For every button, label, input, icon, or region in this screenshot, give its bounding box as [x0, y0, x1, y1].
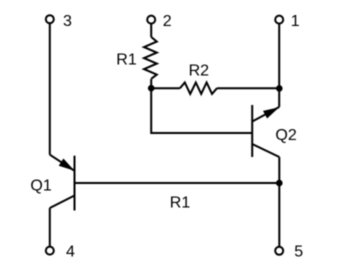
transistor Q2 emitter diagonal	[252, 107, 279, 122]
wire pin 3 down to Q1 emitter	[49, 24, 51, 155]
svg-text:2: 2	[163, 13, 172, 30]
transistor Q1 emitter diagonal	[50, 155, 75, 171]
junction node on pin 1 wire	[276, 85, 283, 92]
wire pin 2 down to resistor R1	[150, 24, 152, 37]
transistor Q2 base bar	[251, 105, 253, 157]
wire Q1 base to junction (long horizontal)	[75, 182, 280, 184]
svg-text:Q1: Q1	[30, 178, 51, 195]
transistor Q1 base bar	[74, 156, 76, 211]
terminal pin 1	[275, 16, 283, 24]
wire junction down then right to Q2 base	[151, 88, 252, 133]
terminal pin 5	[275, 247, 283, 255]
wire Q1 collector down to pin 4	[49, 208, 51, 246]
resistor R1 zigzag	[144, 37, 157, 79]
svg-text:R2: R2	[189, 63, 210, 80]
wire resistor R2 to right junction	[217, 87, 279, 89]
transistor Q2 collector diagonal	[252, 144, 279, 157]
resistor R2 zigzag	[180, 83, 217, 94]
svg-text:5: 5	[294, 243, 303, 260]
junction node below R1	[148, 85, 155, 92]
svg-text:R1: R1	[116, 51, 137, 68]
svg-text:3: 3	[63, 13, 72, 30]
transistor Q2 emitter arrowhead	[263, 107, 279, 118]
wire resistor R1 bottom to junction	[150, 79, 152, 88]
terminal pin 3	[46, 15, 54, 23]
terminal pin 2	[147, 16, 155, 24]
svg-text:Q2: Q2	[275, 127, 296, 144]
wire pin 1 down to Q2 emitter	[278, 24, 280, 107]
junction node at Q1 base / Q2 collector / pin 5	[276, 180, 283, 187]
wire junction to resistor R2	[151, 87, 180, 89]
terminal pin 4	[46, 247, 54, 255]
wire junction down to pin 5	[278, 183, 280, 246]
wire Q2 collector down to junction	[278, 157, 280, 183]
transistor Q1 emitter arrowhead	[59, 159, 75, 171]
transistor Q1 collector diagonal	[50, 196, 75, 209]
svg-text:R1: R1	[170, 194, 191, 211]
svg-text:4: 4	[66, 243, 75, 260]
svg-text:1: 1	[291, 13, 300, 30]
